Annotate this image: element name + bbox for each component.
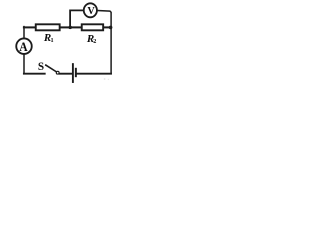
resistor R1 bottom-edge scan shadow bbox=[37, 30, 60, 32]
voltmeter V1 circle bbox=[84, 3, 97, 17]
resistor R2 bottom-edge scan shadow bbox=[83, 30, 103, 32]
wire R2 to right junction bbox=[104, 26, 111, 28]
svg-text:A: A bbox=[19, 39, 28, 54]
wire R1 to left junction bbox=[61, 26, 70, 28]
switch pivot circle bbox=[56, 71, 59, 74]
resistor R2 bbox=[82, 24, 103, 30]
switch S blade bbox=[46, 65, 56, 72]
svg-text:V: V bbox=[87, 6, 95, 17]
svg-text:S: S bbox=[38, 61, 44, 73]
wire switch to battery bbox=[60, 73, 72, 75]
wire bottom-left corner to switch terminal bbox=[24, 73, 45, 75]
battery long plate bbox=[72, 64, 74, 82]
resistor R1 bbox=[36, 24, 60, 30]
node junction dot right bbox=[109, 26, 113, 30]
wire top-left horizontal (corner to R1) bbox=[24, 26, 35, 28]
wire voltmeter branch right lead, corner, right vertical down bbox=[98, 11, 112, 74]
ammeter A1 circle bbox=[16, 38, 32, 54]
wire battery to bottom-right corner bbox=[77, 73, 111, 75]
wire left vertical (corner down to ammeter top) bbox=[23, 27, 25, 38]
node junction dot left (voltmeter tap) bbox=[68, 26, 72, 30]
wire left junction to R2 bbox=[70, 26, 81, 28]
switch blade tip knob bbox=[45, 64, 47, 66]
svg-text:2: 2 bbox=[93, 38, 96, 45]
wire voltmeter branch left riser and top lead bbox=[70, 10, 83, 27]
faint scan specks bottom-right bbox=[104, 78, 106, 80]
svg-text:1: 1 bbox=[51, 37, 54, 44]
wire ammeter bottom to bottom-left corner bbox=[23, 55, 25, 74]
battery short plate bbox=[75, 69, 77, 76]
